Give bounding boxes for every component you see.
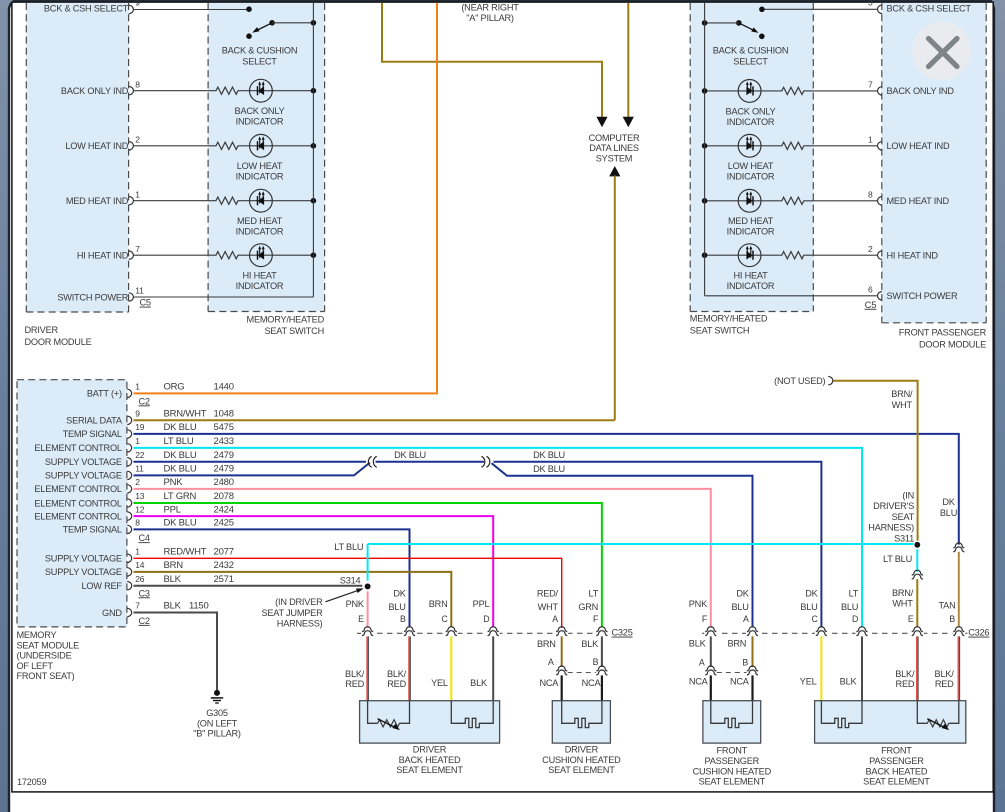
svg-text:BLK: BLK — [689, 639, 707, 649]
svg-text:SYSTEM: SYSTEM — [596, 153, 632, 163]
svg-text:5475: 5475 — [214, 422, 234, 433]
svg-text:YEL: YEL — [431, 678, 448, 688]
svg-text:BLK: BLK — [164, 574, 182, 585]
svg-text:DK BLU: DK BLU — [533, 464, 565, 474]
svg-text:11: 11 — [135, 464, 144, 474]
svg-text:8: 8 — [868, 190, 873, 200]
svg-text:INDICATOR: INDICATOR — [236, 281, 284, 291]
svg-text:LOW HEAT IND: LOW HEAT IND — [887, 141, 950, 151]
svg-text:RED: RED — [387, 679, 406, 689]
svg-text:DK: DK — [805, 589, 818, 599]
svg-text:PPL: PPL — [473, 599, 490, 609]
svg-text:RED: RED — [935, 679, 954, 689]
svg-text:BLK/: BLK/ — [895, 669, 915, 679]
svg-text:DK BLU: DK BLU — [164, 422, 197, 433]
svg-text:PNK: PNK — [164, 477, 184, 488]
svg-text:SUPPLY VOLTAGE: SUPPLY VOLTAGE — [45, 471, 122, 481]
svg-text:C5: C5 — [865, 300, 877, 311]
svg-text:D: D — [852, 614, 858, 624]
svg-text:SWITCH POWER: SWITCH POWER — [887, 291, 958, 301]
svg-text:F: F — [593, 614, 599, 624]
svg-text:1048: 1048 — [214, 409, 234, 420]
svg-text:GND: GND — [102, 608, 122, 618]
svg-text:ELEMENT CONTROL: ELEMENT CONTROL — [34, 484, 122, 494]
svg-text:DK: DK — [393, 589, 406, 599]
svg-text:13: 13 — [135, 491, 145, 501]
svg-text:F: F — [702, 614, 708, 624]
svg-text:COMPUTER: COMPUTER — [589, 133, 640, 143]
svg-text:11: 11 — [135, 286, 144, 296]
svg-text:BLK: BLK — [164, 601, 182, 612]
svg-text:E: E — [358, 614, 364, 624]
svg-text:(IN DRIVER: (IN DRIVER — [275, 597, 323, 607]
svg-text:22: 22 — [135, 450, 145, 460]
svg-text:B: B — [949, 614, 955, 624]
svg-text:1: 1 — [868, 135, 873, 145]
svg-text:S314: S314 — [340, 576, 361, 586]
svg-text:BRN/: BRN/ — [891, 389, 913, 399]
svg-text:DK BLU: DK BLU — [533, 450, 565, 460]
svg-text:DOOR MODULE: DOOR MODULE — [919, 339, 986, 349]
svg-text:NCA: NCA — [582, 678, 602, 688]
svg-text:3: 3 — [868, 0, 873, 8]
svg-text:SEAT ELEMENT: SEAT ELEMENT — [396, 765, 463, 775]
svg-text:(NOT USED): (NOT USED) — [774, 376, 825, 386]
svg-text:E: E — [908, 614, 914, 624]
svg-text:BACK HEATED: BACK HEATED — [399, 755, 461, 765]
svg-text:2078: 2078 — [214, 491, 234, 502]
svg-text:6: 6 — [868, 285, 873, 295]
svg-text:PNK: PNK — [689, 599, 708, 609]
svg-text:BACK ONLY IND: BACK ONLY IND — [887, 86, 955, 96]
svg-text:FRONT: FRONT — [717, 746, 748, 756]
svg-text:BLU: BLU — [388, 602, 405, 612]
svg-text:14: 14 — [135, 560, 145, 570]
svg-text:BLU: BLU — [940, 508, 957, 518]
svg-text:DK: DK — [736, 589, 749, 599]
svg-text:C: C — [441, 614, 448, 624]
svg-text:LT BLU: LT BLU — [883, 554, 912, 564]
svg-text:1: 1 — [135, 547, 140, 557]
svg-text:SUPPLY VOLTAGE: SUPPLY VOLTAGE — [45, 567, 122, 577]
svg-text:A: A — [743, 614, 749, 624]
svg-text:1: 1 — [135, 436, 140, 446]
svg-text:LT BLU: LT BLU — [334, 542, 363, 552]
svg-text:PASSENGER: PASSENGER — [705, 756, 760, 766]
svg-text:MED HEAT IND: MED HEAT IND — [66, 196, 129, 206]
svg-text:1: 1 — [135, 382, 140, 392]
svg-text:MEMORY: MEMORY — [17, 630, 57, 640]
svg-text:INDICATOR: INDICATOR — [727, 281, 775, 291]
svg-text:BLK/: BLK/ — [345, 669, 365, 679]
svg-text:SELECT: SELECT — [733, 56, 768, 66]
svg-text:B: B — [593, 657, 599, 667]
svg-text:LT BLU: LT BLU — [164, 436, 194, 447]
svg-text:BCK & CSH SELECT: BCK & CSH SELECT — [44, 3, 129, 13]
svg-text:7: 7 — [135, 601, 140, 611]
svg-text:2: 2 — [868, 244, 873, 254]
svg-text:RED/WHT: RED/WHT — [164, 547, 207, 558]
svg-text:OF LEFT: OF LEFT — [17, 661, 54, 671]
svg-text:D: D — [483, 614, 489, 624]
svg-text:(UNDERSIDE: (UNDERSIDE — [17, 651, 72, 661]
svg-text:C3: C3 — [139, 588, 150, 598]
svg-text:MED HEAT IND: MED HEAT IND — [887, 196, 950, 206]
svg-text:DRIVER: DRIVER — [565, 745, 599, 755]
svg-text:2077: 2077 — [214, 547, 234, 558]
svg-text:8: 8 — [135, 79, 140, 89]
svg-text:BRN/: BRN/ — [892, 588, 914, 598]
svg-text:BLK/: BLK/ — [935, 669, 955, 679]
svg-text:BLU: BLU — [841, 602, 858, 612]
svg-text:HI HEAT IND: HI HEAT IND — [887, 251, 939, 261]
svg-text:BCK & CSH SELECT: BCK & CSH SELECT — [887, 3, 972, 13]
svg-text:(IN: (IN — [902, 490, 914, 500]
svg-text:BACK ONLY IND: BACK ONLY IND — [61, 86, 129, 96]
svg-text:DK BLU: DK BLU — [164, 518, 197, 529]
svg-text:SEAT ELEMENT: SEAT ELEMENT — [548, 765, 615, 775]
svg-text:ORG: ORG — [164, 382, 185, 393]
svg-text:SEAT ELEMENT: SEAT ELEMENT — [699, 777, 766, 787]
svg-text:2479: 2479 — [214, 450, 234, 461]
svg-text:GRN: GRN — [578, 602, 598, 612]
svg-text:LOW HEAT: LOW HEAT — [728, 161, 774, 171]
svg-text:LT: LT — [849, 589, 859, 599]
svg-text:PNK: PNK — [346, 599, 365, 609]
svg-text:SEAT SWITCH: SEAT SWITCH — [264, 326, 324, 336]
svg-text:BACK ONLY: BACK ONLY — [235, 106, 285, 116]
svg-text:(NEAR RIGHT: (NEAR RIGHT — [461, 2, 519, 12]
svg-text:DK BLU: DK BLU — [394, 450, 426, 460]
svg-text:LT GRN: LT GRN — [164, 491, 197, 502]
svg-text:BATT (+): BATT (+) — [87, 389, 122, 399]
svg-text:CUSHION HEATED: CUSHION HEATED — [542, 755, 621, 765]
svg-text:DK BLU: DK BLU — [164, 450, 197, 461]
svg-text:C5: C5 — [140, 298, 151, 308]
svg-text:BLK/: BLK/ — [387, 669, 407, 679]
svg-text:BLK: BLK — [840, 676, 858, 686]
svg-text:TAN: TAN — [938, 600, 955, 610]
svg-text:C2: C2 — [139, 396, 150, 406]
svg-text:S311: S311 — [894, 534, 914, 544]
svg-text:B: B — [400, 614, 406, 624]
svg-text:SEAT JUMPER: SEAT JUMPER — [261, 608, 323, 618]
svg-text:BACK & CUSHION: BACK & CUSHION — [222, 45, 298, 55]
svg-text:2480: 2480 — [214, 477, 234, 488]
svg-text:DRIVER: DRIVER — [413, 745, 447, 755]
svg-text:9: 9 — [135, 0, 140, 8]
svg-text:NCA: NCA — [730, 676, 750, 686]
svg-text:A: A — [548, 657, 554, 667]
svg-text:2432: 2432 — [214, 560, 234, 571]
svg-text:HARNESS): HARNESS) — [277, 619, 323, 629]
svg-text:WHT: WHT — [892, 400, 913, 410]
svg-text:NCA: NCA — [539, 678, 559, 688]
svg-text:DK BLU: DK BLU — [164, 464, 197, 475]
svg-text:7: 7 — [868, 80, 873, 90]
svg-text:BACK ONLY: BACK ONLY — [726, 106, 776, 116]
svg-text:WHT: WHT — [538, 602, 559, 612]
svg-text:FRONT SEAT): FRONT SEAT) — [17, 671, 75, 681]
svg-text:INDICATOR: INDICATOR — [727, 227, 775, 237]
svg-text:G305: G305 — [206, 708, 228, 718]
svg-text:7: 7 — [135, 244, 140, 254]
svg-text:BLU: BLU — [731, 602, 748, 612]
svg-text:HI HEAT: HI HEAT — [733, 271, 768, 281]
svg-text:19: 19 — [135, 422, 145, 432]
svg-text:BRN: BRN — [429, 599, 448, 609]
svg-text:PASSENGER: PASSENGER — [869, 756, 924, 766]
svg-text:DOOR MODULE: DOOR MODULE — [25, 337, 92, 347]
svg-text:TEMP SIGNAL: TEMP SIGNAL — [63, 429, 122, 439]
svg-text:MEMORY/HEATED: MEMORY/HEATED — [247, 315, 325, 325]
svg-text:DK: DK — [942, 497, 955, 507]
svg-text:BRN: BRN — [727, 639, 746, 649]
svg-text:MEMORY/HEATED: MEMORY/HEATED — [690, 313, 768, 323]
svg-text:INDICATOR: INDICATOR — [236, 172, 284, 182]
svg-text:BLU: BLU — [800, 602, 817, 612]
svg-text:MED HEAT: MED HEAT — [237, 216, 283, 226]
svg-text:2433: 2433 — [214, 436, 234, 447]
svg-text:ELEMENT CONTROL: ELEMENT CONTROL — [34, 511, 122, 521]
svg-text:2: 2 — [135, 477, 140, 487]
svg-text:BRN: BRN — [537, 639, 556, 649]
svg-text:2424: 2424 — [214, 504, 234, 515]
svg-text:NCA: NCA — [689, 676, 709, 686]
svg-text:C4: C4 — [139, 533, 150, 543]
svg-text:RED: RED — [896, 679, 915, 689]
svg-text:SEAT ELEMENT: SEAT ELEMENT — [863, 777, 930, 787]
svg-text:CUSHION HEATED: CUSHION HEATED — [693, 766, 772, 776]
svg-text:LOW HEAT IND: LOW HEAT IND — [65, 141, 128, 151]
svg-text:SELECT: SELECT — [242, 56, 277, 66]
svg-text:INDICATOR: INDICATOR — [236, 227, 284, 237]
svg-text:WHT: WHT — [892, 599, 913, 609]
svg-text:SEAT SWITCH: SEAT SWITCH — [690, 325, 750, 335]
svg-text:TEMP SIGNAL: TEMP SIGNAL — [63, 525, 122, 535]
svg-text:LOW REF: LOW REF — [81, 581, 122, 591]
svg-text:12: 12 — [135, 504, 145, 514]
svg-text:SWITCH POWER: SWITCH POWER — [57, 292, 128, 302]
svg-text:(ON LEFT: (ON LEFT — [197, 718, 238, 728]
svg-text:BRN/WHT: BRN/WHT — [164, 409, 207, 420]
svg-text:ELEMENT CONTROL: ELEMENT CONTROL — [34, 498, 122, 508]
svg-text:SEAT MODULE: SEAT MODULE — [17, 640, 80, 650]
svg-text:"A" PILLAR): "A" PILLAR) — [466, 13, 514, 23]
svg-text:2479: 2479 — [214, 464, 234, 475]
svg-text:INDICATOR: INDICATOR — [727, 117, 775, 127]
svg-text:SERIAL DATA: SERIAL DATA — [66, 416, 123, 426]
svg-text:1150: 1150 — [189, 601, 209, 612]
svg-text:BLK: BLK — [470, 678, 488, 688]
svg-text:BACK & CUSHION: BACK & CUSHION — [713, 45, 789, 55]
svg-text:SUPPLY VOLTAGE: SUPPLY VOLTAGE — [45, 554, 122, 564]
svg-text:A: A — [552, 614, 558, 624]
svg-text:26: 26 — [135, 574, 145, 584]
svg-text:2425: 2425 — [214, 518, 234, 529]
svg-text:INDICATOR: INDICATOR — [727, 172, 775, 182]
svg-text:HI HEAT IND: HI HEAT IND — [77, 251, 129, 261]
svg-text:BLK: BLK — [581, 639, 599, 649]
svg-text:C2: C2 — [139, 616, 150, 626]
svg-text:8: 8 — [135, 518, 140, 528]
svg-text:YEL: YEL — [800, 676, 817, 686]
svg-text:HI HEAT: HI HEAT — [242, 271, 277, 281]
svg-text:DRIVER'S: DRIVER'S — [873, 501, 914, 511]
svg-text:FRONT: FRONT — [881, 746, 912, 756]
svg-text:9: 9 — [135, 409, 140, 419]
svg-text:PPL: PPL — [164, 504, 181, 515]
svg-text:DRIVER: DRIVER — [25, 325, 59, 335]
svg-text:SEAT: SEAT — [892, 512, 915, 522]
svg-text:172059: 172059 — [17, 777, 46, 787]
svg-text:LT: LT — [588, 589, 598, 599]
svg-text:A: A — [699, 657, 705, 667]
svg-text:C325: C325 — [612, 628, 633, 638]
svg-text:RED/: RED/ — [537, 589, 559, 599]
svg-text:BRN: BRN — [164, 560, 184, 571]
svg-text:1: 1 — [135, 190, 140, 200]
svg-text:"B" PILLAR): "B" PILLAR) — [193, 729, 241, 739]
svg-text:INDICATOR: INDICATOR — [236, 117, 284, 127]
svg-text:FRONT PASSENGER: FRONT PASSENGER — [899, 327, 987, 337]
svg-text:C: C — [811, 614, 818, 624]
svg-text:SUPPLY VOLTAGE: SUPPLY VOLTAGE — [45, 457, 122, 467]
svg-text:2571: 2571 — [214, 574, 234, 585]
svg-text:HARNESS): HARNESS) — [868, 523, 914, 533]
svg-text:DATA LINES: DATA LINES — [589, 143, 639, 153]
svg-text:BACK HEATED: BACK HEATED — [866, 766, 928, 776]
svg-text:2: 2 — [135, 135, 140, 145]
svg-text:LOW HEAT: LOW HEAT — [237, 161, 283, 171]
svg-text:B: B — [742, 657, 748, 667]
svg-text:1440: 1440 — [214, 382, 234, 393]
svg-text:MED HEAT: MED HEAT — [728, 216, 774, 226]
svg-text:ELEMENT CONTROL: ELEMENT CONTROL — [34, 443, 122, 453]
svg-text:RED: RED — [345, 679, 364, 689]
svg-text:C326: C326 — [968, 628, 989, 638]
